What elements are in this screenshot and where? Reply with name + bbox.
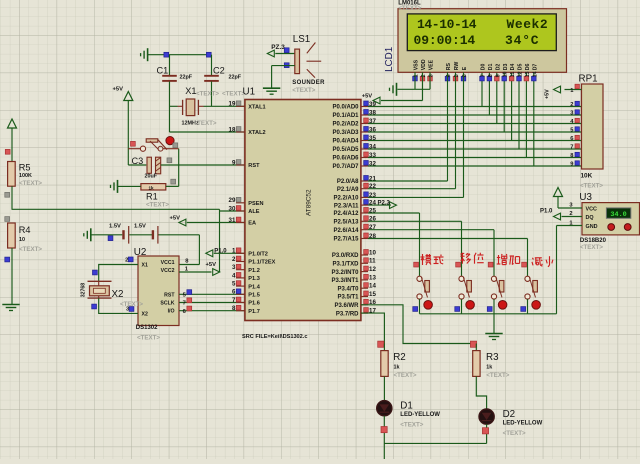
svg-text:D3: D3 <box>503 64 509 71</box>
svg-text:P1.6: P1.6 <box>248 301 260 307</box>
wire LCD D0-D7 staircase verticals <box>482 72 534 166</box>
button S1 (模式) <box>413 262 433 314</box>
svg-text:P3.6/WR: P3.6/WR <box>334 303 359 309</box>
svg-text:Week2: Week2 <box>507 17 549 32</box>
sensor U3 DS18B20 <box>579 192 639 251</box>
svg-text:C2: C2 <box>213 66 225 76</box>
wire XTAL2 net (pin 18) <box>170 131 245 133</box>
wire LS1 pin2 to ground <box>272 66 295 89</box>
svg-text:3: 3 <box>429 74 435 77</box>
wire P3.6 to R3 <box>361 305 476 344</box>
svg-text:R5: R5 <box>19 163 31 173</box>
wire LCD VSS/VEE to ground <box>398 72 431 89</box>
wire P2.4 to button 1 <box>368 213 420 276</box>
svg-text:C3: C3 <box>132 156 144 166</box>
resistor-pack RP1 10K <box>579 74 604 190</box>
power +5V arrow (left column top) <box>5 119 16 162</box>
ground (battery left) <box>84 228 91 241</box>
svg-text:E: E <box>462 66 468 70</box>
crystal X1 12MHz <box>178 86 220 127</box>
wire XTAL1 net (pin 19) <box>170 105 245 107</box>
svg-text:15: 15 <box>369 291 376 298</box>
wire LCD RW to P2.1 <box>368 72 456 188</box>
svg-text:R2: R2 <box>393 352 406 363</box>
U2 pin 7 label <box>183 298 192 307</box>
U3 pin 2 DQ wire, node P1.0 <box>540 209 582 220</box>
svg-text:ALE: ALE <box>248 209 259 215</box>
svg-text:<TEXT>: <TEXT> <box>394 372 417 379</box>
svg-text:EA: EA <box>248 221 256 227</box>
svg-text:P1.0: P1.0 <box>214 248 227 254</box>
svg-text:<TEXT>: <TEXT> <box>194 120 217 127</box>
svg-text:+5V: +5V <box>362 94 373 100</box>
svg-text:P0.6/AD6: P0.6/AD6 <box>332 156 359 162</box>
button S2 (移位) <box>455 262 475 314</box>
svg-text:P0.7/AD7: P0.7/AD7 <box>332 164 359 170</box>
svg-text:LED-YELLOW: LED-YELLOW <box>503 421 543 427</box>
ground (buttons) <box>485 314 502 340</box>
wire R3 to D2 <box>476 376 486 409</box>
label 减小 (red) <box>532 256 553 267</box>
svg-text:XTAL2: XTAL2 <box>248 130 265 136</box>
svg-text:<TEXT>: <TEXT> <box>146 202 169 209</box>
svg-text:7: 7 <box>183 301 186 307</box>
ground (LCD VSS) <box>390 83 397 96</box>
svg-text:5: 5 <box>232 281 236 288</box>
svg-text:+5V: +5V <box>545 89 551 99</box>
svg-text:P2.3/A11: P2.3/A11 <box>334 203 359 209</box>
svg-text:VCC2: VCC2 <box>161 268 175 274</box>
wire P0 bus rows (to RP1) <box>368 107 582 167</box>
svg-text:GND: GND <box>586 224 598 230</box>
svg-text:X1: X1 <box>142 263 148 269</box>
svg-text:+5V: +5V <box>170 215 181 221</box>
power +5V arrow (EA pin 31) <box>170 215 245 226</box>
svg-text:AT89C52: AT89C52 <box>306 189 313 216</box>
svg-text:PSEN: PSEN <box>248 201 263 207</box>
svg-text:D2: D2 <box>495 64 501 71</box>
svg-text:LCD1: LCD1 <box>384 47 395 72</box>
ground (left of R1) <box>111 180 118 193</box>
svg-text:10: 10 <box>369 249 376 256</box>
svg-text:1: 1 <box>232 248 236 255</box>
svg-text:<TEXT>: <TEXT> <box>137 335 160 342</box>
svg-text:22pF: 22pF <box>229 75 242 81</box>
wire LCD RS to P2.0 <box>368 72 448 181</box>
svg-text:9: 9 <box>495 74 501 77</box>
svg-text:34.0: 34.0 <box>610 211 626 219</box>
svg-text:5: 5 <box>454 74 460 77</box>
svg-text:30: 30 <box>229 205 236 212</box>
LCD1 pin names (rotated) <box>414 59 539 70</box>
U2 pin 3 (X2) <box>120 301 143 312</box>
svg-text:X1: X1 <box>185 86 196 96</box>
svg-text:U2: U2 <box>134 247 147 258</box>
svg-text:VEE: VEE <box>429 59 435 70</box>
capacitor C1 22pF <box>157 55 193 132</box>
svg-text:<TEXT>: <TEXT> <box>19 180 42 187</box>
svg-text:P1.0: P1.0 <box>540 209 553 215</box>
svg-text:4: 4 <box>446 74 452 77</box>
wire P2.7 to button 4 <box>368 239 528 277</box>
svg-text:D5: D5 <box>518 64 524 71</box>
svg-text:P1.1/T2EX: P1.1/T2EX <box>248 260 275 266</box>
svg-text:8: 8 <box>232 305 236 312</box>
resistor R1 1k <box>118 179 179 208</box>
U2 pin 6 label <box>183 306 192 315</box>
wire U2 VCC2 to +5V <box>179 271 212 273</box>
lcd LCD1 LM016L <box>384 0 567 72</box>
svg-text:P3.3/INT1: P3.3/INT1 <box>331 278 359 284</box>
sounder LS1 <box>284 34 325 94</box>
ground (below R4) <box>2 305 19 311</box>
crystal X2 32768 <box>81 265 139 314</box>
battery 2x1.5V cells <box>91 224 200 244</box>
svg-text:P1.5: P1.5 <box>248 293 260 299</box>
svg-text:31: 31 <box>229 217 236 224</box>
wire R2 to D1 <box>383 376 385 400</box>
RP1 pins 2-9 <box>570 101 579 167</box>
svg-text:<TEXT>: <TEXT> <box>292 87 315 94</box>
svg-text:2: 2 <box>421 74 427 77</box>
svg-text:1k: 1k <box>149 185 155 190</box>
svg-text:RP1: RP1 <box>579 74 598 85</box>
svg-text:VDD: VDD <box>421 59 427 70</box>
svg-text:10: 10 <box>503 71 509 77</box>
power +5V arrow (reset) <box>113 86 133 165</box>
svg-text:PZ.3: PZ.3 <box>271 44 285 51</box>
U2 pin number 1 (VCC2) <box>185 266 189 272</box>
svg-text:<TEXT>: <TEXT> <box>580 244 603 251</box>
wire LCD E to P2.2 <box>368 72 464 197</box>
node P2.3 (pin 24 stub) <box>368 200 397 208</box>
svg-text:LS1: LS1 <box>293 34 310 45</box>
svg-text:14: 14 <box>369 283 376 290</box>
wire button ground rail <box>420 313 557 315</box>
svg-text:14: 14 <box>532 71 538 77</box>
svg-text:P1.4: P1.4 <box>248 284 260 290</box>
resistor R3 1k <box>470 341 509 379</box>
svg-text:2: 2 <box>232 256 236 263</box>
svg-text:8: 8 <box>488 74 494 77</box>
svg-text:12: 12 <box>369 266 376 273</box>
svg-text:13: 13 <box>369 274 376 281</box>
svg-text:<TEXT>: <TEXT> <box>120 301 143 308</box>
svg-text:14-10-14: 14-10-14 <box>417 17 477 32</box>
svg-text:1.5V: 1.5V <box>134 224 146 230</box>
label 模式 (red) <box>421 254 444 265</box>
svg-text:2: 2 <box>570 102 573 108</box>
svg-text:VSS: VSS <box>414 59 420 70</box>
svg-text:VCC: VCC <box>586 207 597 213</box>
led D1 LED-YELLOW <box>377 401 441 429</box>
svg-text:22pF: 22pF <box>180 75 193 81</box>
wire P2.5 to button 2 <box>368 221 462 276</box>
svg-text:D1: D1 <box>400 401 413 412</box>
svg-text:P2.6/A14: P2.6/A14 <box>333 228 359 234</box>
svg-text:RST: RST <box>248 163 260 169</box>
svg-text:P2.5/A13: P2.5/A13 <box>333 220 359 226</box>
svg-text:<TEXT>: <TEXT> <box>400 421 423 428</box>
U3 pin 3 VCC wire + power arrow <box>554 188 583 209</box>
svg-text:3: 3 <box>232 264 236 271</box>
ground (top-left, crystal caps) <box>141 48 148 61</box>
svg-text:<TEXT>: <TEXT> <box>19 246 42 253</box>
wire P2.6 to button 3 <box>368 230 494 277</box>
button S3 (增加) <box>487 262 507 314</box>
mcu U1 AT89C52 <box>222 87 361 341</box>
power +5V arrow (LCD VDD) <box>362 72 423 104</box>
svg-text:<TEXT>: <TEXT> <box>503 430 526 437</box>
svg-text:6: 6 <box>462 74 468 77</box>
svg-text:P0.2/AD2: P0.2/AD2 <box>332 122 359 128</box>
svg-text:SOUNDER: SOUNDER <box>292 80 325 86</box>
svg-text:7: 7 <box>481 74 487 77</box>
svg-text:SRC FILE=Keil\DS1302.c: SRC FILE=Keil\DS1302.c <box>242 334 307 340</box>
svg-text:XTAL1: XTAL1 <box>248 105 265 111</box>
svg-text:P1.3: P1.3 <box>248 276 260 282</box>
svg-text:34°C: 34°C <box>505 33 539 48</box>
wire U2 I/O to P1.7 <box>179 310 245 312</box>
U2 pin 2 (X1) <box>125 257 133 264</box>
svg-text:100K: 100K <box>19 173 32 179</box>
svg-text:1: 1 <box>414 74 420 77</box>
svg-text:D2: D2 <box>503 409 516 420</box>
svg-text:R3: R3 <box>486 352 499 363</box>
wire U2 RST to P1.5 <box>179 293 245 295</box>
svg-text:X2: X2 <box>112 289 124 300</box>
svg-text:P2.3: P2.3 <box>378 200 391 206</box>
svg-text:U3: U3 <box>579 192 592 203</box>
RP1 pin 1 +5V <box>545 84 582 99</box>
svg-text:X2: X2 <box>142 312 148 318</box>
svg-text:19: 19 <box>229 101 236 108</box>
wire U2 SCLK to P1.6 <box>179 302 245 304</box>
U2 pin 5 label <box>183 290 192 299</box>
svg-text:P3.1/TXD: P3.1/TXD <box>332 262 359 268</box>
svg-text:29: 29 <box>229 197 236 204</box>
svg-text:R1: R1 <box>146 192 158 202</box>
svg-text:12: 12 <box>518 71 524 77</box>
wire D1 cathode down <box>381 416 387 459</box>
svg-text:<TEXT>: <TEXT> <box>580 182 603 189</box>
svg-text:D4: D4 <box>510 64 516 71</box>
svg-text:P2.7/A15: P2.7/A15 <box>333 237 359 243</box>
svg-text:11: 11 <box>369 258 376 265</box>
svg-text:P1.7: P1.7 <box>248 309 260 315</box>
svg-text:1.5V: 1.5V <box>109 224 121 230</box>
svg-text:D6: D6 <box>525 64 531 71</box>
svg-text:1k: 1k <box>486 364 492 370</box>
svg-text:09:00:14: 09:00:14 <box>414 33 476 48</box>
svg-text:VCC1: VCC1 <box>161 260 175 266</box>
svg-text:D0: D0 <box>481 64 487 71</box>
svg-text:D7: D7 <box>532 64 538 71</box>
svg-text:18: 18 <box>229 126 236 133</box>
svg-text:7: 7 <box>232 297 236 304</box>
node P1.0 (chip pin 1) <box>206 248 245 256</box>
svg-text:R4: R4 <box>19 225 31 235</box>
svg-text:+5V: +5V <box>113 86 124 92</box>
svg-text:P0.1/AD1: P0.1/AD1 <box>332 113 359 119</box>
svg-text:D1: D1 <box>488 64 494 71</box>
svg-text:P2.1/A9: P2.1/A9 <box>337 187 359 193</box>
wire R4 to ground <box>5 248 12 305</box>
svg-text:I/O: I/O <box>168 309 175 315</box>
svg-text:U1: U1 <box>243 87 256 98</box>
svg-text:20uF: 20uF <box>145 174 158 180</box>
wire net ALE: long horizontal to chip <box>12 209 245 272</box>
svg-text:RST: RST <box>164 293 175 299</box>
svg-text:P0.5/AD5: P0.5/AD5 <box>332 147 359 153</box>
U2 pin number 8 (VCC1) <box>185 259 189 265</box>
resistor R4 <box>5 217 43 253</box>
led D2 LED-YELLOW <box>479 409 543 437</box>
svg-text:32768: 32768 <box>81 283 87 298</box>
svg-text:2: 2 <box>125 258 128 264</box>
button (reset) <box>128 137 178 152</box>
svg-text:P3.5/T1: P3.5/T1 <box>337 295 359 301</box>
resistor R5 <box>8 162 43 187</box>
label 增加 (red) <box>497 254 520 265</box>
svg-text:P0.0/AD0: P0.0/AD0 <box>332 105 359 111</box>
U3 pin 1 GND wire down to button rail <box>557 220 583 313</box>
wire R5 bottom to junction <box>5 186 12 209</box>
button S4 (减小) <box>521 262 541 314</box>
svg-text:4: 4 <box>232 272 236 279</box>
wire RST node vertical <box>178 149 180 187</box>
svg-text:SCLK: SCLK <box>160 301 174 307</box>
wire P3.7 to R2 <box>361 313 385 343</box>
svg-text:+5V: +5V <box>206 262 217 268</box>
svg-text:P2.4/A12: P2.4/A12 <box>333 211 359 217</box>
svg-text:RS: RS <box>446 63 452 71</box>
svg-text:P1.2: P1.2 <box>248 268 260 274</box>
resistor R2 1k <box>378 341 417 379</box>
U1 right pins: numbers, squares, names <box>331 101 376 317</box>
svg-text:DS1302: DS1302 <box>136 325 158 331</box>
svg-text:C1: C1 <box>157 66 169 76</box>
node PZ.3 <box>267 44 295 57</box>
ground (LS1) <box>263 88 280 94</box>
svg-text:P3.4/T0: P3.4/T0 <box>337 286 359 292</box>
power +5V arrow (U2 VCC2) <box>206 262 220 275</box>
rtc U2 DS1302 <box>134 247 179 342</box>
U1 left pins: numbers, squares, names <box>229 101 276 315</box>
svg-text:7: 7 <box>570 145 573 151</box>
capacitor C3 20uF <box>128 156 178 180</box>
wire D2 cathode to rail <box>384 424 488 443</box>
svg-text:1k: 1k <box>394 364 400 370</box>
capacitor C2 22pF <box>204 55 242 107</box>
svg-text:P0.4/AD4: P0.4/AD4 <box>332 139 359 145</box>
label 移位 (red) <box>460 253 483 264</box>
svg-text:10: 10 <box>19 237 25 243</box>
svg-text:13: 13 <box>525 71 531 77</box>
svg-text:RW: RW <box>454 62 460 71</box>
svg-text:P3.0/RXD: P3.0/RXD <box>332 253 359 259</box>
svg-text:P3.2/INT0: P3.2/INT0 <box>331 270 359 276</box>
svg-text:P3.7/RD: P3.7/RD <box>336 311 359 317</box>
svg-text:DQ: DQ <box>586 215 594 221</box>
svg-text:<TEXT>: <TEXT> <box>398 5 421 12</box>
svg-text:6: 6 <box>232 289 236 296</box>
svg-text:9: 9 <box>232 159 236 166</box>
svg-text:<TEXT>: <TEXT> <box>196 91 219 98</box>
wire gnd rail for C1/C2 <box>148 52 212 57</box>
svg-text:P2.0/A8: P2.0/A8 <box>337 179 359 185</box>
wire RST to pin 9 <box>179 164 245 166</box>
wire battery to U2 VCC1 <box>179 235 199 265</box>
svg-text:10K: 10K <box>581 173 593 180</box>
svg-text:P2.2/A10: P2.2/A10 <box>333 196 359 202</box>
LCD1 pin numbers 1-14 with state squares <box>413 71 539 81</box>
svg-text:11: 11 <box>510 72 516 78</box>
svg-text:LED-YELLOW: LED-YELLOW <box>400 412 440 418</box>
svg-text:<TEXT>: <TEXT> <box>486 372 509 379</box>
svg-text:P1.0/T2: P1.0/T2 <box>248 252 268 258</box>
svg-text:P0.3/AD3: P0.3/AD3 <box>332 130 359 136</box>
